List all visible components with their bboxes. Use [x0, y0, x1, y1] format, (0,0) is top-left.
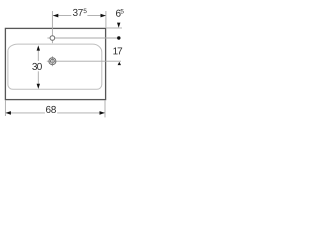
dimension 17: up arrowhead at drain centerline: [118, 62, 121, 65]
drain centerline to right arrow: [47, 60, 121, 62]
washbasin inner bowl outline: [8, 44, 102, 89]
dimension 37.5: left arrowhead: [53, 14, 58, 18]
washbasin outer rim: [5, 28, 105, 99]
dimension 68: extension line left: [4, 100, 6, 116]
dimension 30: line upper segment: [37, 50, 39, 61]
dimension 68: line right segment: [57, 112, 104, 114]
tap hole extension line (37.5 dim, left): [51, 11, 53, 36]
dimension 37.5: right arrowhead: [101, 14, 106, 18]
dimension 6.5: top edge extension line: [107, 27, 123, 29]
dimension 17: label: [113, 48, 122, 55]
dimension 17: start dot: [117, 36, 120, 39]
dimension 68: right arrowhead: [100, 111, 105, 115]
dimension 37.5: label: [73, 9, 87, 16]
tap hole circle: [50, 36, 55, 41]
dimension 6.5: label: [116, 9, 124, 17]
dimension 68: label: [46, 106, 56, 113]
dimension 68: line left segment: [6, 112, 45, 114]
tap hole centerline to right dot: [55, 37, 121, 39]
dimension 68: extension line right: [104, 100, 106, 117]
drain crosshair vertical: [51, 56, 53, 66]
dimension 37.5: line left segment: [53, 15, 71, 17]
drain inner circle: [51, 59, 55, 63]
dimension 37.5: extension line right: [105, 11, 107, 28]
dimension 30: label: [32, 63, 42, 70]
dimension 30: up arrowhead: [37, 45, 40, 50]
dimension 30: line lower segment: [37, 71, 39, 84]
dimension 30: down arrowhead: [37, 84, 40, 89]
drain outer circle: [49, 58, 56, 65]
dimension 68: left arrowhead: [6, 111, 11, 115]
dimension 6.5: down arrowhead: [117, 23, 120, 28]
tap hole left tick: [47, 37, 50, 39]
tap hole lower tick: [51, 40, 53, 43]
dimension 37.5: line right segment: [87, 15, 105, 17]
